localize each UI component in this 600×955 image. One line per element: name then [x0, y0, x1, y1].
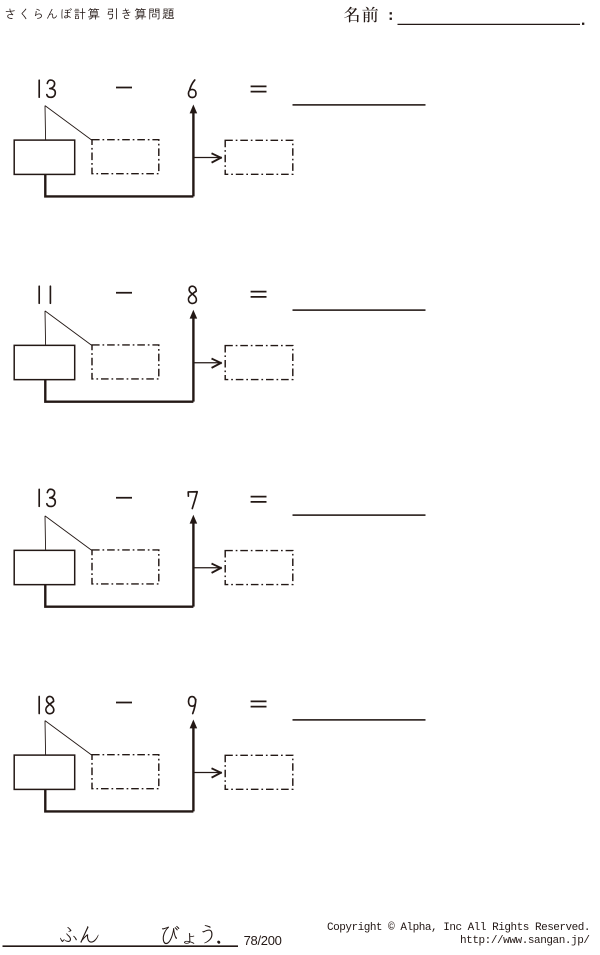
svg-text:78/200: 78/200 [244, 933, 282, 948]
svg-text:http://www.sangan.jp/: http://www.sangan.jp/ [460, 935, 590, 947]
svg-text:Copyright © Alpha, Inc All Ri: Copyright © Alpha, Inc All Rights Reserv… [327, 922, 591, 934]
